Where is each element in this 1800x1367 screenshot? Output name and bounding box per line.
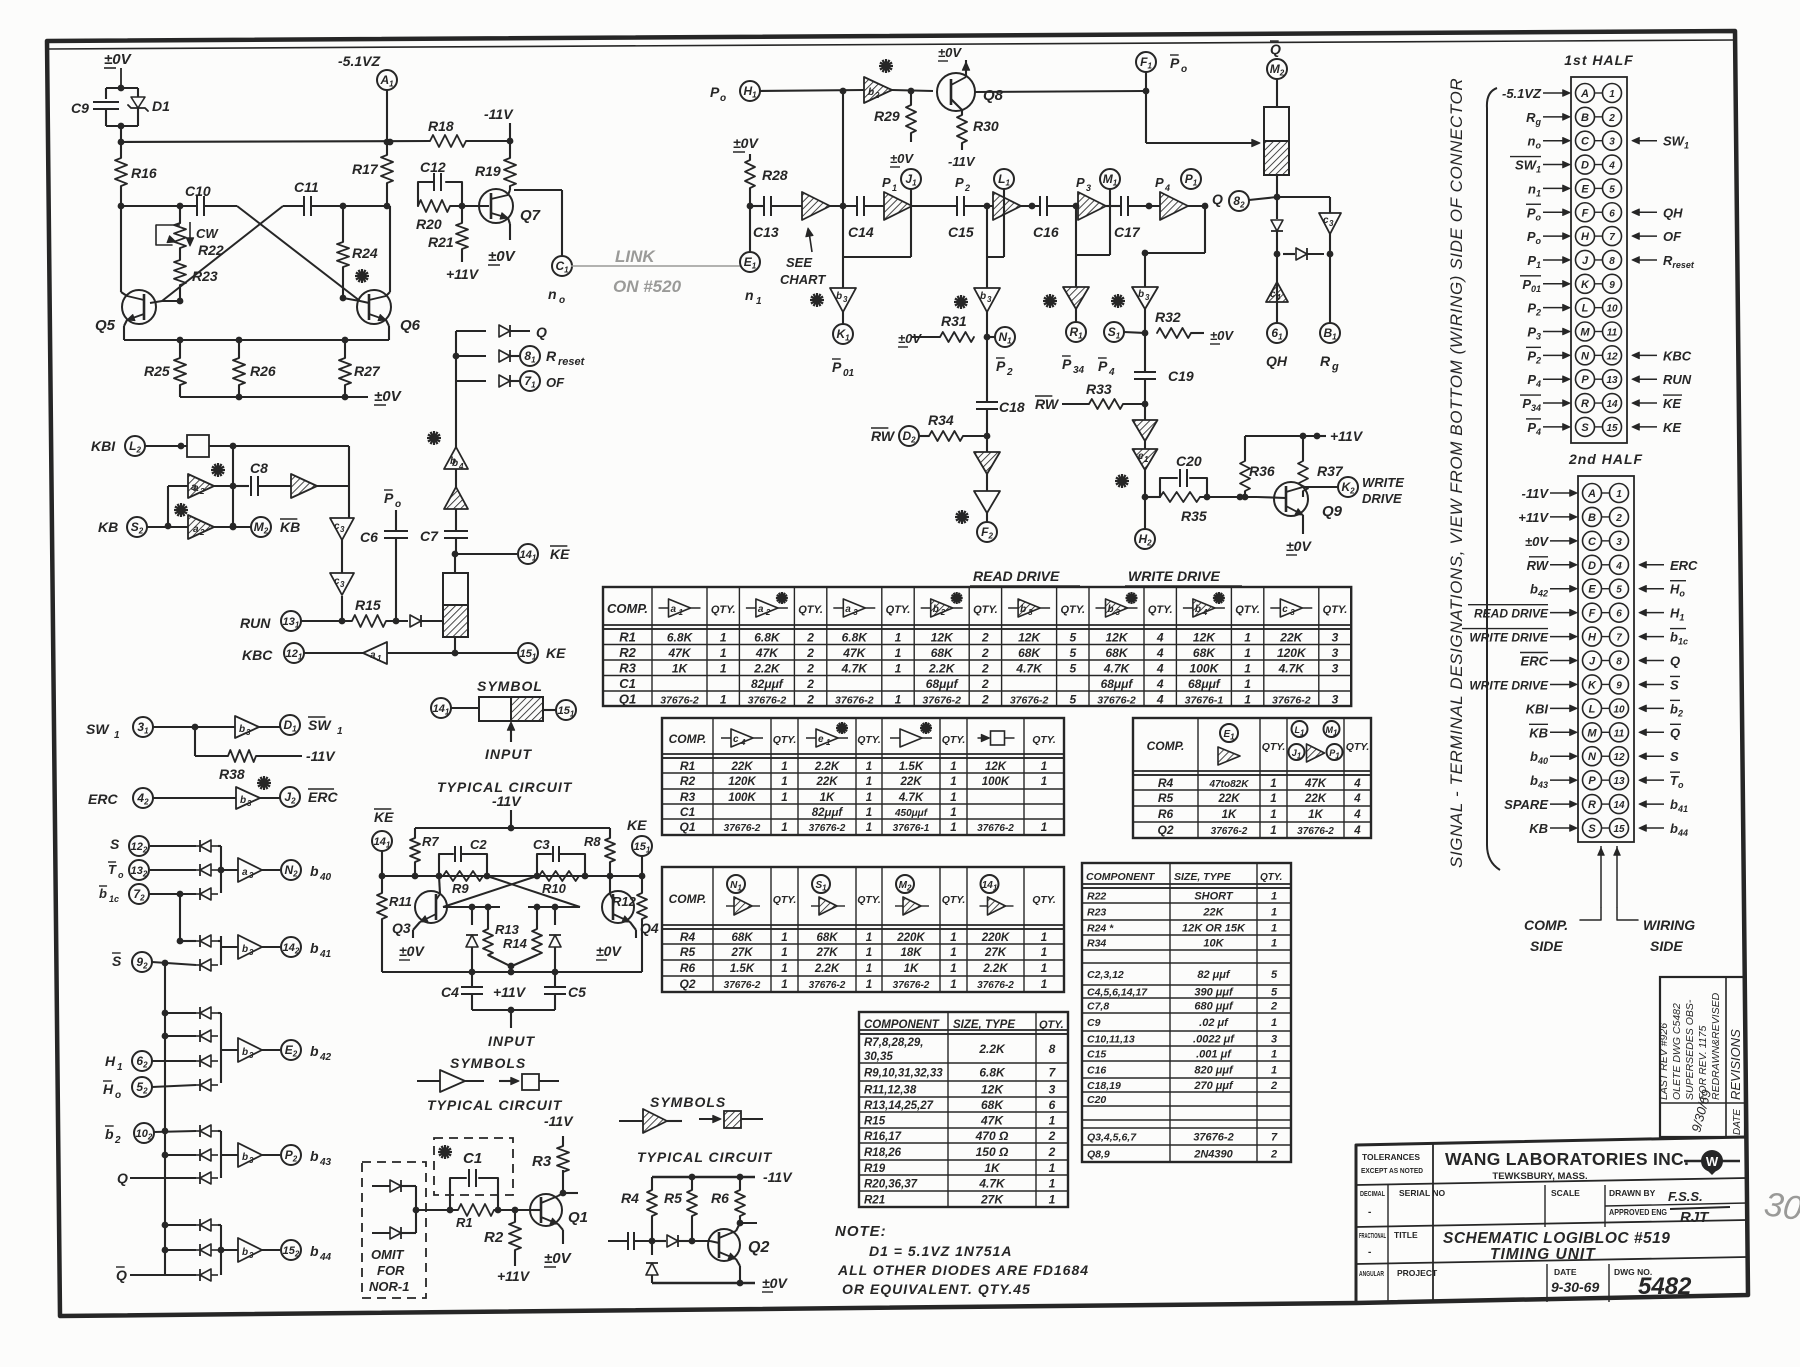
- svg-text:APPROVED ENG: APPROVED ENG: [1609, 1207, 1667, 1217]
- wire: [986, 337, 988, 402]
- svg-text:R: R: [1588, 799, 1596, 811]
- resistor R37: [1298, 461, 1308, 491]
- svg-text:±0V: ±0V: [399, 943, 425, 959]
- svg-text:14: 14: [1613, 800, 1625, 811]
- svg-text:1: 1: [1271, 1017, 1277, 1029]
- svg-text:1: 1: [1270, 825, 1276, 837]
- svg-text:E: E: [1588, 584, 1596, 596]
- resistor R8: [609, 828, 611, 838]
- open amplifier read drive with star: [986, 474, 988, 491]
- svg-text:b: b: [242, 944, 248, 955]
- capacitor C7: [444, 530, 468, 532]
- svg-text:b: b: [868, 87, 874, 98]
- svg-text:37676-2: 37676-2: [809, 823, 846, 834]
- svg-text:390 μμf: 390 μμf: [1194, 987, 1234, 999]
- input square box: [187, 435, 209, 457]
- svg-text:5: 5: [1069, 646, 1076, 660]
- svg-text:COMP.: COMP.: [669, 732, 707, 746]
- diode T0: [150, 869, 196, 871]
- svg-text:12K: 12K: [1105, 631, 1128, 645]
- resistor R2 typical: [514, 1210, 516, 1222]
- terminal B1 Rg: [1329, 254, 1331, 323]
- wire ground rail y=397 and +-0V: [180, 396, 368, 398]
- svg-text:NOTE:: NOTE:: [835, 1223, 887, 1240]
- svg-text:Q: Q: [1270, 41, 1281, 57]
- svg-text:01: 01: [843, 368, 855, 379]
- cross-coupling wire B: [162, 206, 283, 301]
- svg-text:READ DRIVE: READ DRIVE: [973, 568, 1060, 584]
- svg-text:22K: 22K: [899, 776, 922, 788]
- svg-text:±0V: ±0V: [1210, 328, 1234, 343]
- symbol open triangle: [417, 1080, 440, 1082]
- svg-text:37676-2: 37676-2: [893, 980, 930, 991]
- svg-text:15: 15: [1613, 824, 1625, 835]
- svg-text:11: 11: [1607, 328, 1618, 339]
- svg-text:C10,11,13: C10,11,13: [1087, 1034, 1135, 1046]
- delay line box (half hatched): [443, 573, 468, 637]
- svg-text:KBI: KBI: [91, 438, 116, 454]
- svg-text:C1: C1: [680, 805, 696, 819]
- svg-text:Q5: Q5: [95, 317, 116, 334]
- table: capacitor/transistor size table: [1082, 863, 1291, 1162]
- svg-text:OLETE DWG C5482: OLETE DWG C5482: [1671, 1003, 1683, 1100]
- svg-text:12K: 12K: [1193, 631, 1216, 645]
- svg-text:b: b: [1020, 604, 1026, 615]
- svg-text:3: 3: [1086, 183, 1091, 193]
- svg-text:2.2K: 2.2K: [753, 662, 781, 676]
- svg-text:1: 1: [1244, 631, 1251, 645]
- svg-text:3: 3: [1616, 537, 1622, 548]
- svg-text:COMP.: COMP.: [1147, 739, 1185, 753]
- resistor R32 +-0V: [1157, 328, 1191, 338]
- svg-text:1: 1: [866, 776, 872, 788]
- svg-text:R20: R20: [416, 216, 442, 232]
- resistor R26: [238, 340, 240, 358]
- terminal K2 write drive: [1303, 486, 1338, 488]
- svg-text:2N4390: 2N4390: [1193, 1149, 1233, 1161]
- svg-text:SW: SW: [86, 721, 110, 737]
- svg-text:ERC: ERC: [1521, 654, 1549, 669]
- svg-text:7: 7: [1609, 232, 1615, 243]
- svg-text:REDRAWN&REVISED: REDRAWN&REVISED: [1710, 992, 1722, 1100]
- delay line box right (half hatched): [1264, 107, 1289, 175]
- svg-text:68K: 68K: [1018, 646, 1041, 660]
- svg-text:KE: KE: [374, 809, 394, 825]
- amplifier b3 b42: [221, 1049, 238, 1051]
- terminal 15-1 KE: [518, 643, 538, 663]
- svg-text:1: 1: [1244, 677, 1251, 691]
- capacitor C4: [471, 972, 473, 986]
- svg-text:27K: 27K: [984, 947, 1007, 959]
- svg-text:QTY.: QTY.: [1323, 604, 1348, 616]
- svg-text:1: 1: [1271, 938, 1277, 950]
- resistor R27: [344, 340, 346, 358]
- wire: [455, 469, 457, 488]
- wire chain R1: [1075, 206, 1077, 287]
- svg-text:SYMBOLS: SYMBOLS: [450, 1055, 526, 1071]
- diode b44 r1: [165, 1224, 196, 1226]
- wire: [153, 726, 235, 728]
- svg-text:S: S: [1670, 749, 1679, 764]
- svg-text:o: o: [720, 93, 726, 104]
- svg-text:LAST REV #926: LAST REV #926: [1658, 1023, 1670, 1100]
- svg-text:Q: Q: [1212, 191, 1223, 207]
- svg-text:R4: R4: [621, 1190, 639, 1206]
- svg-text:1: 1: [866, 792, 872, 804]
- bracket for vertical text: [1487, 88, 1500, 870]
- resistor R7: [414, 828, 416, 838]
- svg-text:QTY.: QTY.: [942, 894, 966, 906]
- wire: [387, 652, 455, 654]
- svg-text:R3: R3: [680, 790, 696, 804]
- terminal R1: [1075, 309, 1077, 322]
- svg-text:.0022 μf: .0022 μf: [1193, 1034, 1235, 1046]
- svg-text:5: 5: [1271, 987, 1278, 999]
- svg-text:±0V: ±0V: [762, 1275, 788, 1291]
- svg-text:30: 30: [1762, 1185, 1800, 1228]
- svg-text:37676-2: 37676-2: [1272, 695, 1311, 707]
- diode b41 upper: [180, 940, 196, 942]
- svg-text:C11: C11: [294, 179, 319, 195]
- svg-text:22K: 22K: [1217, 793, 1240, 805]
- terminal 14-2 b41: [281, 937, 301, 957]
- svg-text:QTY.: QTY.: [711, 604, 736, 616]
- svg-text:2: 2: [199, 528, 205, 537]
- svg-text:b: b: [310, 1043, 319, 1059]
- svg-text:R24 *: R24 *: [1087, 923, 1114, 935]
- svg-text:3: 3: [853, 608, 858, 617]
- svg-text:2.2K: 2.2K: [814, 761, 840, 773]
- wire: [179, 894, 181, 941]
- svg-text:Q: Q: [117, 1170, 128, 1186]
- svg-text:R23: R23: [192, 268, 218, 284]
- svg-text:COMPONENT: COMPONENT: [1086, 871, 1156, 883]
- svg-text:C4,5,6,14,17: C4,5,6,14,17: [1087, 987, 1148, 999]
- wire: [259, 726, 280, 728]
- svg-text:R13,14,25,27: R13,14,25,27: [864, 1100, 934, 1112]
- svg-text:b: b: [1195, 604, 1201, 615]
- hatched amplifier: [444, 487, 468, 509]
- svg-text:N: N: [1588, 751, 1597, 763]
- diode omit lower: [372, 1232, 390, 1234]
- svg-text:3: 3: [249, 1156, 254, 1165]
- svg-text:P: P: [955, 175, 964, 190]
- svg-text:3: 3: [1145, 293, 1150, 302]
- svg-text:R: R: [546, 348, 557, 364]
- svg-text:C15: C15: [1087, 1049, 1106, 1061]
- svg-text:4: 4: [1353, 825, 1361, 837]
- svg-text:1: 1: [1616, 489, 1622, 500]
- svg-text:12K: 12K: [931, 631, 954, 645]
- svg-text:1: 1: [1041, 947, 1047, 959]
- wire to c3 chain: [317, 485, 349, 487]
- amplifier c3 upper (pointing down): [330, 518, 354, 540]
- svg-text:R5: R5: [664, 1190, 682, 1206]
- svg-text:COMP.: COMP.: [669, 892, 707, 906]
- svg-text:QTY.: QTY.: [1262, 741, 1286, 753]
- svg-text:L: L: [1582, 303, 1589, 315]
- table: component table N1/S1/M2/14-1 group: [662, 867, 1064, 992]
- svg-text:4: 4: [1353, 809, 1361, 821]
- svg-text:30,35: 30,35: [864, 1051, 893, 1063]
- connector 1st half left labels: [1543, 92, 1564, 94]
- transistor Q8: [937, 73, 975, 111]
- svg-text:2: 2: [1006, 367, 1013, 378]
- svg-text:68K: 68K: [981, 1098, 1004, 1112]
- svg-text:OF: OF: [546, 375, 565, 390]
- title block: [1356, 1137, 1748, 1303]
- svg-text:P: P: [1170, 55, 1180, 71]
- svg-text:R3: R3: [619, 661, 636, 676]
- svg-text:18K: 18K: [900, 947, 922, 959]
- svg-text:C20: C20: [1087, 1094, 1106, 1106]
- svg-text:OMIT: OMIT: [371, 1247, 405, 1262]
- svg-text:CHART: CHART: [780, 272, 826, 287]
- svg-text:1: 1: [1271, 891, 1277, 903]
- svg-text:c: c: [733, 734, 739, 745]
- svg-text:±0V: ±0V: [596, 943, 622, 959]
- svg-text:H: H: [105, 1053, 116, 1069]
- svg-text:4.7K: 4.7K: [1278, 662, 1306, 676]
- svg-text:1: 1: [720, 631, 727, 645]
- svg-text:a: a: [758, 604, 764, 615]
- svg-text:R32: R32: [1155, 309, 1181, 325]
- svg-text:D1: D1: [152, 98, 170, 114]
- svg-text:D: D: [1581, 160, 1589, 172]
- svg-text:S: S: [110, 836, 120, 852]
- svg-text:2: 2: [1270, 1001, 1277, 1013]
- svg-text:Q8,9: Q8,9: [1087, 1149, 1110, 1161]
- svg-text:R: R: [1581, 398, 1589, 410]
- amplifier a1 (pointing left): [304, 652, 363, 654]
- svg-text:-11V: -11V: [492, 793, 522, 809]
- svg-text:47K: 47K: [667, 646, 691, 660]
- svg-text:1: 1: [1041, 776, 1047, 788]
- wire: [986, 312, 988, 337]
- svg-text:C9: C9: [71, 100, 89, 116]
- svg-text:reset: reset: [558, 356, 586, 368]
- svg-text:R2: R2: [619, 645, 636, 660]
- wire bottom rail y=972: [382, 971, 642, 973]
- svg-text:P: P: [1076, 175, 1085, 190]
- svg-text:W: W: [1706, 1154, 1719, 1169]
- svg-text:6.8K: 6.8K: [842, 631, 869, 645]
- svg-text:R35: R35: [1181, 508, 1207, 524]
- svg-text:QTY.: QTY.: [1060, 604, 1085, 616]
- wire Q5 base: [150, 301, 162, 303]
- svg-text:S: S: [1581, 422, 1589, 434]
- svg-text:2: 2: [114, 1135, 121, 1146]
- svg-text:D1 = 5.1VZ 1N751A: D1 = 5.1VZ 1N751A: [869, 1243, 1012, 1259]
- resistor R10: [539, 871, 579, 881]
- svg-text:RJT: RJT: [1680, 1209, 1710, 1226]
- svg-text:82μμf: 82μμf: [812, 807, 844, 819]
- table: component table c4/e1 group: [662, 718, 1064, 835]
- svg-text:-: -: [1368, 1207, 1371, 1218]
- svg-text:4.7K: 4.7K: [1103, 662, 1131, 676]
- table: component table E1/J1P1 group: [1133, 718, 1371, 838]
- resistor R24: [342, 206, 344, 242]
- svg-text:g: g: [1331, 361, 1339, 373]
- svg-text:5: 5: [1069, 631, 1076, 645]
- terminal C1 / n0: [552, 256, 572, 276]
- hatched amplifier after C8: [291, 474, 317, 498]
- svg-text:1: 1: [1041, 963, 1047, 975]
- svg-text:44: 44: [319, 1252, 332, 1263]
- svg-text:F.S.S.: F.S.S.: [1668, 1189, 1703, 1204]
- resistor R35: [1145, 496, 1160, 498]
- transistor Q2 typical: [708, 1229, 740, 1261]
- svg-text:R16: R16: [131, 165, 157, 181]
- svg-text:SIDE: SIDE: [1530, 938, 1563, 954]
- symbol arrow hatched box: [699, 1118, 717, 1120]
- svg-text:R15: R15: [864, 1116, 886, 1128]
- svg-text:-: -: [1368, 1247, 1371, 1258]
- svg-text:a: a: [370, 650, 376, 661]
- svg-text:+11V: +11V: [1518, 510, 1549, 525]
- wire: [892, 90, 933, 91]
- svg-text:4: 4: [1108, 367, 1115, 378]
- diode omit upper: [372, 1185, 390, 1187]
- wire: [209, 445, 349, 447]
- svg-text:1: 1: [950, 963, 956, 975]
- terminal H2: [1144, 497, 1146, 529]
- svg-text:2: 2: [1048, 1145, 1056, 1159]
- svg-text:-11V: -11V: [948, 154, 976, 169]
- svg-text:1: 1: [781, 963, 787, 975]
- svg-text:QTY.: QTY.: [942, 734, 966, 746]
- svg-text:R18: R18: [428, 118, 454, 134]
- amplifier b3 b44: [221, 1249, 238, 1251]
- svg-text:Q7: Q7: [520, 207, 541, 224]
- svg-text:KE: KE: [550, 546, 570, 562]
- svg-text:37676-2: 37676-2: [1010, 695, 1049, 707]
- svg-text:b: b: [1138, 289, 1144, 300]
- svg-text:37676-2: 37676-2: [724, 980, 761, 991]
- svg-text:R9,10,31,32,33: R9,10,31,32,33: [864, 1068, 943, 1080]
- svg-text:LINK: LINK: [615, 247, 656, 266]
- svg-text:1: 1: [950, 822, 956, 834]
- svg-text:12K: 12K: [985, 761, 1007, 773]
- svg-text:1: 1: [1270, 793, 1276, 805]
- wire: [830, 205, 856, 207]
- svg-text:H: H: [103, 1081, 114, 1097]
- svg-text:37676-2: 37676-2: [1193, 1132, 1233, 1144]
- wire down to b4 chain: [455, 381, 457, 448]
- svg-text:4.7K: 4.7K: [1015, 662, 1043, 676]
- svg-text:1: 1: [950, 947, 956, 959]
- svg-text:R24: R24: [352, 245, 378, 261]
- svg-text:Q2: Q2: [748, 1239, 769, 1256]
- terminal 14-1 symbol: [431, 698, 451, 718]
- svg-text:3: 3: [1332, 662, 1339, 676]
- svg-text:47K: 47K: [755, 646, 779, 660]
- svg-text:Q2: Q2: [1157, 823, 1173, 837]
- wang logo: [1684, 1160, 1702, 1163]
- svg-text:1: 1: [781, 947, 787, 959]
- svg-text:12: 12: [1613, 752, 1625, 763]
- svg-text:R2: R2: [484, 1229, 504, 1246]
- amplifier a3 b40: [221, 869, 238, 871]
- svg-text:b: b: [99, 886, 107, 901]
- svg-text:47K: 47K: [980, 1114, 1004, 1128]
- svg-text:K: K: [1588, 679, 1597, 691]
- svg-text:4.7K: 4.7K: [841, 662, 869, 676]
- wire node y=206: [121, 205, 196, 207]
- diode to Q: [499, 325, 510, 337]
- svg-text:R22: R22: [198, 242, 224, 258]
- capacitor C17: [1120, 196, 1122, 216]
- C1 dashed box: [434, 1138, 513, 1195]
- svg-text:15: 15: [1606, 423, 1618, 434]
- svg-text:11: 11: [1614, 728, 1625, 739]
- svg-text:37676-2: 37676-2: [809, 980, 846, 991]
- svg-text:o: o: [559, 295, 565, 306]
- svg-text:K: K: [1581, 279, 1590, 291]
- svg-text:22K: 22K: [1202, 907, 1224, 919]
- svg-text:+11V: +11V: [446, 266, 480, 282]
- svg-text:-11V: -11V: [1522, 486, 1550, 501]
- wire long horizontal rail y=142: [121, 141, 430, 142]
- svg-text:3: 3: [1290, 608, 1295, 617]
- svg-text:QTY.: QTY.: [973, 604, 998, 616]
- wire: [912, 205, 956, 207]
- wire: [260, 797, 280, 799]
- svg-text:R27: R27: [354, 363, 381, 379]
- wire: [214, 485, 233, 487]
- svg-text:47K: 47K: [842, 646, 866, 660]
- svg-text:M: M: [1587, 727, 1597, 739]
- svg-text:1: 1: [866, 822, 872, 834]
- svg-text:S: S: [1588, 823, 1596, 835]
- svg-text:o: o: [1181, 64, 1187, 75]
- svg-text:1: 1: [1244, 646, 1251, 660]
- svg-text:82μμf: 82μμf: [751, 677, 784, 691]
- connector 1st half right labels: [1632, 137, 1639, 144]
- svg-text:S: S: [112, 953, 122, 969]
- svg-text:C: C: [1588, 536, 1597, 548]
- svg-text:37676-2: 37676-2: [922, 695, 961, 707]
- svg-text:27K: 27K: [815, 947, 838, 959]
- svg-text:1: 1: [950, 979, 956, 991]
- wire Q6 base: [360, 301, 369, 303]
- svg-text:27K: 27K: [730, 947, 753, 959]
- diode to OF: [456, 380, 486, 382]
- svg-text:10: 10: [1606, 304, 1618, 315]
- svg-text:Q: Q: [1670, 725, 1680, 740]
- svg-text:2: 2: [806, 646, 814, 660]
- svg-text:TIMING UNIT: TIMING UNIT: [1490, 1246, 1596, 1263]
- svg-text:C6: C6: [360, 529, 378, 545]
- svg-text:b: b: [242, 1247, 248, 1258]
- terminal 15-1 symbol: [556, 700, 576, 720]
- svg-text:NOR-1: NOR-1: [369, 1279, 409, 1294]
- diode H1: [152, 1060, 196, 1062]
- svg-text:2: 2: [199, 487, 205, 496]
- terminal N1: [995, 327, 1015, 347]
- svg-text:68μμf: 68μμf: [1188, 677, 1221, 691]
- svg-text:e: e: [818, 734, 824, 745]
- terminal K1: [833, 324, 853, 344]
- terminal D1 SW1 bar: [280, 715, 300, 735]
- svg-text:KBC: KBC: [242, 647, 273, 663]
- svg-text:±0V: ±0V: [898, 331, 922, 346]
- terminal M2 KB bar: [251, 517, 271, 537]
- svg-text:.02 μf: .02 μf: [1199, 1017, 1229, 1029]
- amplifier b2 with star (to Q8): [864, 77, 892, 103]
- svg-text:±0V: ±0V: [488, 248, 517, 265]
- svg-text:SIDE: SIDE: [1650, 938, 1683, 954]
